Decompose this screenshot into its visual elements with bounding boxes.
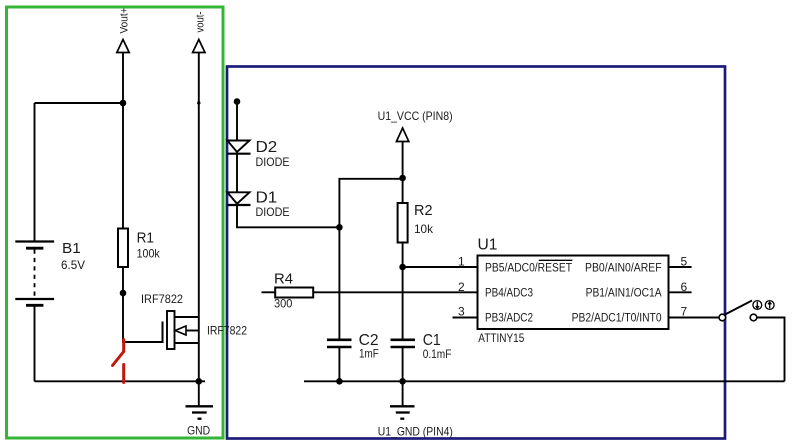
wire between D2 and D1 — [236, 154, 238, 193]
ground symbol U1_GND — [390, 406, 415, 418]
svg-text:R4: R4 — [274, 270, 293, 287]
svg-text:D1: D1 — [256, 189, 278, 206]
svg-text:PB2/ADC1/T0/INT0: PB2/ADC1/T0/INT0 — [572, 312, 662, 324]
Vout+ arrow — [117, 40, 129, 53]
svg-text:IRF7822: IRF7822 — [207, 324, 247, 338]
blue boundary box (right sub-circuit) — [227, 67, 725, 439]
battery B1 — [15, 242, 54, 306]
svg-text:PB4/ADC3: PB4/ADC3 — [485, 288, 533, 300]
svg-text:DIODE: DIODE — [256, 155, 290, 169]
wire Vout+ stem down to R1 — [122, 53, 124, 229]
svg-text:DIODE: DIODE — [256, 205, 290, 219]
overline on RESET — [539, 259, 573, 261]
switch S2 left contact — [719, 314, 726, 321]
wire R1 bottom to switch/gate corner — [123, 267, 163, 342]
wire R2 bottom to pin1 node — [402, 243, 404, 268]
svg-text:PB1/AIN1/OC1A: PB1/AIN1/OC1A — [586, 288, 662, 300]
svg-text:6.5V: 6.5V — [61, 258, 85, 272]
transistor Q1 channel body — [167, 311, 175, 349]
gate bar of Q1 — [162, 322, 164, 344]
green boundary box (left sub-circuit) — [7, 7, 224, 438]
wire C1 to U1_GND symbol — [402, 381, 404, 406]
capacitor C2 — [327, 340, 352, 347]
wire pin5 stub — [669, 266, 692, 268]
svg-text:B1: B1 — [62, 240, 81, 257]
svg-text:3: 3 — [458, 305, 465, 319]
ground symbol GND (left) — [186, 406, 214, 418]
svg-text:U1_VCC (PIN8): U1_VCC (PIN8) — [378, 109, 453, 123]
svg-text:D2: D2 — [256, 139, 278, 156]
wire battery top vertical — [34, 103, 36, 242]
node diode top — [234, 98, 241, 105]
node C2 bottom — [336, 378, 343, 385]
svg-text:5: 5 — [681, 255, 688, 269]
switch S1 (red, open) — [113, 340, 124, 383]
wire vout- stem / drain-source vertical — [198, 53, 200, 382]
body-diode stub — [186, 330, 199, 332]
wire pin6 stub — [669, 291, 692, 293]
node D1/C2 junction — [336, 224, 343, 231]
svg-text:U1: U1 — [478, 237, 498, 254]
svg-text:vout-: vout- — [195, 11, 207, 32]
svg-text:Vout+: Vout+ — [119, 8, 131, 34]
node junction battery-top / Vout+ — [120, 100, 127, 107]
svg-text:IRF7822: IRF7822 — [141, 292, 183, 306]
svg-text:1mF: 1mF — [359, 346, 379, 360]
svg-text:1: 1 — [458, 255, 465, 269]
svg-text:U1_GND (PIN4): U1_GND (PIN4) — [378, 425, 453, 439]
switch action icon (release up) — [765, 301, 774, 310]
svg-text:R1: R1 — [137, 229, 154, 246]
svg-text:PB3/ADC2: PB3/ADC2 — [485, 312, 533, 324]
wire pin7 to switch — [669, 317, 719, 319]
wire bottom-left horizontal — [35, 380, 206, 382]
switch S2 right contact — [750, 314, 757, 321]
wire battery bottom vertical — [34, 305, 36, 381]
body-diode arrow of Q1 — [175, 326, 186, 335]
resistor R4 body — [275, 288, 313, 298]
IC U1 box — [478, 256, 669, 330]
svg-text:GND: GND — [187, 426, 210, 438]
switch S2 lever — [725, 301, 752, 315]
resistor R2 — [398, 203, 408, 243]
svg-text:2: 2 — [458, 280, 465, 294]
diode D2 — [227, 141, 250, 154]
svg-text:7: 7 — [681, 305, 688, 319]
svg-text:100k: 100k — [137, 247, 161, 261]
wire VCC arrow stem to R2 — [402, 142, 404, 204]
svg-text:0.1mF: 0.1mF — [423, 347, 452, 361]
wire pin2 (R4 to U1) — [313, 291, 477, 293]
svg-text:PB0/AIN0/AREF: PB0/AIN0/AREF — [585, 262, 662, 274]
node C1 bottom — [399, 378, 406, 385]
wire GND stem left — [198, 381, 200, 406]
wire pin1 — [403, 266, 477, 268]
svg-text:PB5/ADC0/RESET: PB5/ADC0/RESET — [485, 262, 572, 274]
diode D1 — [227, 192, 250, 205]
drain stub — [175, 316, 199, 318]
node VCC/R2 junction — [399, 175, 406, 182]
wire pin3 stub — [453, 317, 478, 319]
wire pin1 node to C1 — [402, 267, 404, 340]
svg-text:ATTINY15: ATTINY15 — [478, 333, 524, 345]
node junction below R1 — [120, 290, 127, 297]
capacitor C1 — [391, 340, 416, 347]
node small on vout- line — [197, 101, 200, 104]
node junction source/GND — [196, 378, 203, 385]
wire C2 bottom — [338, 347, 340, 381]
wire C1 bottom — [402, 347, 404, 381]
wire junction up and right to VCC node — [339, 179, 402, 228]
wire diode chain top stub — [236, 102, 238, 141]
resistor R4 leads — [262, 291, 276, 293]
svg-text:10k: 10k — [414, 222, 434, 236]
wire top-left horizontal (battery top to Vout+ line) — [35, 102, 124, 104]
svg-text:300: 300 — [274, 297, 293, 311]
source stub — [175, 342, 199, 344]
wire D1 bottom, right to junction — [237, 205, 339, 228]
U1_VCC power arrow — [396, 128, 408, 142]
wire junction down to C2 — [338, 227, 340, 339]
node R2/pin1 junction — [399, 264, 406, 271]
svg-text:R2: R2 — [414, 202, 433, 219]
switch action icon (press down) — [753, 301, 762, 310]
vout- arrow — [193, 40, 205, 53]
svg-text:6: 6 — [681, 280, 688, 294]
resistor R1 — [118, 229, 128, 268]
wire bottom bus (right section) — [304, 380, 785, 382]
wire switch to right rail — [757, 318, 784, 382]
